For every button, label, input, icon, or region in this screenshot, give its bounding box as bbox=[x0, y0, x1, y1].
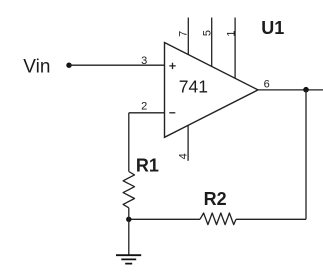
wire Vin to op-amp pin 3 bbox=[69, 64, 165, 66]
pin 1 wire bbox=[234, 18, 236, 79]
wire pin 2 down to R1 bbox=[128, 113, 130, 172]
node Vin junction dot bbox=[66, 62, 71, 67]
svg-text:2: 2 bbox=[141, 100, 147, 112]
pin 5 wire bbox=[211, 18, 213, 67]
wire R2 to feedback node bbox=[129, 218, 200, 220]
node feedback junction dot bbox=[126, 217, 131, 222]
svg-text:7: 7 bbox=[177, 31, 189, 37]
wire bottom right to R2 bbox=[236, 218, 306, 220]
pin 4 wire bbox=[187, 125, 189, 161]
svg-text:1: 1 bbox=[225, 30, 237, 36]
pin 7 wire bbox=[187, 18, 189, 55]
svg-text:R1: R1 bbox=[136, 155, 159, 175]
svg-text:741: 741 bbox=[179, 77, 208, 97]
svg-text:R2: R2 bbox=[204, 189, 227, 209]
svg-text:U1: U1 bbox=[261, 18, 284, 38]
op-amp U1 plus input marker bbox=[169, 63, 175, 69]
resistor R1 bbox=[123, 172, 134, 208]
op-amp U1 minus input marker bbox=[169, 112, 175, 114]
svg-text:Vin: Vin bbox=[23, 56, 50, 77]
node output junction dot bbox=[303, 87, 309, 93]
wire feedback node to ground bbox=[128, 219, 130, 255]
wire output down right side bbox=[305, 90, 307, 220]
pin 6 output wire bbox=[258, 89, 323, 91]
wire pin 2 horizontal bbox=[129, 112, 165, 114]
wire R1 to feedback node bbox=[128, 208, 130, 220]
ground bbox=[116, 255, 141, 263]
svg-text:3: 3 bbox=[141, 55, 147, 67]
op-amp U1 triangle bbox=[165, 43, 259, 138]
svg-text:6: 6 bbox=[264, 79, 270, 91]
resistor R2 bbox=[200, 213, 236, 225]
svg-text:5: 5 bbox=[202, 30, 214, 36]
svg-text:4: 4 bbox=[178, 153, 190, 159]
